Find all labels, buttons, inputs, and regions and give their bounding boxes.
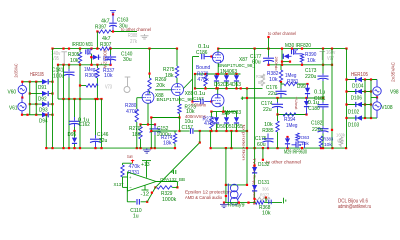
capacitor C157 xyxy=(190,128,192,134)
svg-text:to protection: to protection xyxy=(242,125,247,161)
svg-text:D95: D95 xyxy=(68,132,77,138)
svg-text:C180: C180 xyxy=(308,106,319,112)
svg-text:D102: D102 xyxy=(348,110,359,116)
wire y114.5 xyxy=(278,114,307,116)
wire Sum to R331 xyxy=(123,162,133,164)
zener diode D82 xyxy=(92,56,93,58)
svg-text:HER105: HER105 xyxy=(351,72,368,78)
wire transformer riser B xyxy=(35,82,37,115)
svg-text:A: A xyxy=(101,62,103,67)
node dots y104.1 xyxy=(29,103,31,105)
svg-text:D104: D104 xyxy=(352,84,363,90)
capacitor C163 xyxy=(112,15,114,23)
opamp V- bar xyxy=(142,189,149,191)
svg-text:+Uout: +Uout xyxy=(294,97,299,111)
wire M29 cluster riser xyxy=(230,131,232,148)
wire M31 source to rail xyxy=(91,54,93,65)
svg-text:10k: 10k xyxy=(324,142,332,148)
node dot X87 grid xyxy=(210,55,212,57)
svg-text:22u: 22u xyxy=(263,107,272,113)
voltage probe V73 xyxy=(125,76,131,78)
wire C163 to other channel xyxy=(111,31,137,33)
svg-text:to other channel: to other channel xyxy=(266,160,301,166)
node dots top bus right xyxy=(254,48,256,50)
resistor R305 xyxy=(79,49,81,52)
ac source V108 xyxy=(376,98,378,102)
resistor R306 xyxy=(86,84,98,87)
svg-text:R385: R385 xyxy=(262,128,273,134)
capacitor C186 xyxy=(201,54,203,60)
bypass cap mark at V+ xyxy=(173,170,175,174)
diode D103 xyxy=(356,115,362,120)
capacitor C110 xyxy=(126,187,128,202)
ground relay xyxy=(223,203,225,205)
svg-text:8k: 8k xyxy=(258,80,263,86)
svg-text:10k: 10k xyxy=(269,77,278,83)
net stub to other channel bottom xyxy=(262,148,264,160)
svg-text:22u: 22u xyxy=(99,138,108,144)
svg-text:C146: C146 xyxy=(97,132,108,138)
svg-text:220u: 220u xyxy=(305,74,316,80)
node dots relay riser xyxy=(225,184,227,186)
diode D55 xyxy=(236,112,238,118)
svg-text:D103: D103 xyxy=(348,123,359,129)
triode X86 xyxy=(211,94,224,107)
node dot center tap xyxy=(21,97,23,99)
zener diode D131 xyxy=(252,185,257,190)
wire right riser x365 xyxy=(364,80,366,119)
wire D94 out xyxy=(49,114,53,116)
resistor R331 xyxy=(122,163,124,165)
diode D52 xyxy=(216,74,218,75)
voltage probe V97 xyxy=(320,51,326,53)
wire cathode node y124.5 xyxy=(141,124,156,126)
diode D94 xyxy=(42,112,48,117)
svg-text:10k: 10k xyxy=(262,211,271,217)
node dots y98 xyxy=(246,97,248,99)
node dot C163 top xyxy=(112,13,114,15)
svg-text:D99: D99 xyxy=(297,84,306,90)
node dot x332 probe tap xyxy=(331,129,333,131)
wire X86 plate xyxy=(217,88,219,94)
node dot small cap node xyxy=(265,197,267,199)
svg-text:BN1P1TU0C_98_: BN1P1TU0C_98_ xyxy=(157,97,196,103)
node dots y93.5 xyxy=(29,92,31,94)
svg-text:D131: D131 xyxy=(258,180,269,186)
wire feedback diagonal xyxy=(155,143,199,188)
wire X89 plate diagonal xyxy=(183,79,192,89)
wire X89 cathode xyxy=(179,96,181,104)
resistor R383 xyxy=(319,136,322,147)
disabled ground symbol xyxy=(144,34,146,36)
wire y99 horizontal xyxy=(58,98,102,100)
capacitor C180 xyxy=(322,102,324,104)
node dots on left top bus xyxy=(51,48,53,50)
diode D106 xyxy=(356,89,362,94)
svg-text:R383: R383 xyxy=(323,137,334,143)
svg-text:R386: R386 xyxy=(256,74,265,80)
svg-text:1Meg: 1Meg xyxy=(84,67,95,73)
wire y104.1 xyxy=(30,103,42,105)
wire riser x247 long xyxy=(246,88,248,184)
mosfet M29 xyxy=(297,141,299,149)
node dots y114.75 xyxy=(21,114,23,116)
capacitor C173 xyxy=(322,74,324,76)
wire X86 cathode xyxy=(222,107,224,112)
zener diode D96 xyxy=(284,54,289,59)
wire secondary top y81.75 xyxy=(22,81,42,83)
op-amp X137 OPA132 xyxy=(128,172,157,191)
ac source V60 xyxy=(21,82,23,86)
node dot mid diagonal xyxy=(151,192,153,194)
wire y91.5 xyxy=(347,91,372,93)
wire rectifier output riser xyxy=(52,49,54,149)
resistor R397 xyxy=(99,30,112,33)
resistor R270 xyxy=(140,125,142,127)
svg-text:1u: 1u xyxy=(133,214,139,220)
wire X87 plate to bus xyxy=(217,49,219,52)
node dot y131 xyxy=(178,130,180,132)
wire R331 to +input xyxy=(123,176,128,178)
wire X88 cathode xyxy=(147,103,149,124)
wire right rail y64.8 xyxy=(269,64,333,66)
resistor R274 xyxy=(174,131,176,134)
wire left rail 140v xyxy=(58,64,111,66)
diode D54 xyxy=(226,74,228,75)
svg-text:M30 IRF820: M30 IRF820 xyxy=(285,43,311,49)
svg-text:100u: 100u xyxy=(53,74,64,80)
ground bottom left bus xyxy=(146,148,148,150)
wire y118 xyxy=(347,117,378,119)
wire transformer riser A xyxy=(29,82,31,115)
resistor R278 xyxy=(204,75,207,86)
svg-text:R306: R306 xyxy=(85,73,96,79)
svg-text:D91: D91 xyxy=(38,85,47,91)
wire x122.5 down xyxy=(122,177,124,187)
resistor R368 xyxy=(256,201,265,204)
supply rail x254.6 xyxy=(254,49,256,203)
svg-text:to other channel: to other channel xyxy=(268,31,296,37)
wire y98 xyxy=(242,97,323,99)
svg-text:-12: -12 xyxy=(141,192,150,198)
svg-text:2x35VAC: 2x35VAC xyxy=(391,61,396,82)
ac source V61 xyxy=(21,98,23,103)
wire output down xyxy=(176,182,178,188)
wire D92 out xyxy=(49,93,53,95)
resistor R280 xyxy=(136,98,138,109)
wire mid tap right xyxy=(371,97,377,99)
svg-text:V73: V73 xyxy=(105,85,112,91)
wire bottom left bus xyxy=(46,147,175,149)
capacitor C167 xyxy=(193,101,200,103)
relay Relay9 coil xyxy=(230,184,238,192)
svg-text:D132: D132 xyxy=(258,162,269,168)
wire X88 plate to X89 grid xyxy=(155,89,171,91)
svg-text:30u: 30u xyxy=(123,57,132,63)
right rectifier rail x346.5 xyxy=(346,49,348,149)
svg-text:R307: R307 xyxy=(100,42,111,48)
svg-text:60u: 60u xyxy=(257,142,266,148)
svg-text:D50D51D55: D50D51D55 xyxy=(217,124,243,130)
svg-text:Epsilon 12 protection: Epsilon 12 protection xyxy=(185,189,231,195)
wire x46.3 riser xyxy=(45,115,47,148)
node dot output node xyxy=(176,186,178,188)
small capacitor at output node xyxy=(265,198,267,202)
resistor R275 xyxy=(176,49,178,66)
node dots y124.5 xyxy=(139,123,141,125)
node dot y131 left end xyxy=(150,130,152,132)
wire y93.5 xyxy=(30,93,42,95)
svg-text:306: 306 xyxy=(262,186,269,192)
wire y61.6 stub xyxy=(282,61,290,63)
diode D99 xyxy=(307,84,309,88)
triode X87 xyxy=(212,52,223,63)
node dot R269 top area xyxy=(148,73,150,75)
diode D92 xyxy=(42,91,48,96)
capacitor C141 xyxy=(68,65,70,69)
resistor R269 xyxy=(149,49,151,78)
wire y131 continues xyxy=(194,130,247,132)
wire x80 to bottom bus xyxy=(79,99,81,148)
svg-text:22u: 22u xyxy=(268,91,277,97)
wire zener feed x282 xyxy=(281,49,283,65)
svg-text:OPA132_BB: OPA132_BB xyxy=(160,177,185,183)
svg-text:18k: 18k xyxy=(165,73,174,79)
antenna terminal of C163 xyxy=(110,10,116,12)
relay supply riser xyxy=(225,148,227,203)
svg-text:10k: 10k xyxy=(104,73,113,79)
node dots center bottom bus xyxy=(210,147,212,149)
wire y114.75 xyxy=(22,114,42,116)
filter rail x332 xyxy=(331,49,333,149)
wire y131 left part xyxy=(151,130,177,132)
svg-text:0.1u: 0.1u xyxy=(314,90,325,96)
capacitor C162 xyxy=(74,99,76,117)
node dot X87 plate xyxy=(217,48,219,50)
svg-text:Sum: Sum xyxy=(127,154,133,160)
svg-text:220u: 220u xyxy=(312,127,323,133)
node dots y91.5 xyxy=(345,90,347,92)
wire plate riser to C186 xyxy=(192,57,194,80)
node dots y114.5 xyxy=(276,113,278,115)
diode D102 xyxy=(356,102,362,107)
capacitor C174 xyxy=(277,98,279,102)
resistor R385 xyxy=(277,115,279,122)
diode D95 xyxy=(74,131,76,138)
wire y104.5 xyxy=(347,104,372,106)
wire cathode rail y74 xyxy=(195,73,241,75)
wire to minus input xyxy=(123,186,128,188)
svg-text:470k: 470k xyxy=(126,109,138,115)
svg-text:X87: X87 xyxy=(239,57,248,63)
wire relay top y184.9 xyxy=(226,184,247,186)
node dot feedback corner xyxy=(199,141,201,143)
wire relay bottom y202.6 xyxy=(224,202,256,204)
node dot C167 left xyxy=(191,100,193,102)
disabled resistor R386 xyxy=(261,74,264,86)
node dot riser top xyxy=(267,36,269,38)
diode D104 xyxy=(356,77,362,82)
wire R337 to y99 xyxy=(96,86,98,100)
svg-text:1Meg: 1Meg xyxy=(286,123,297,129)
svg-text:+: + xyxy=(129,175,132,180)
wire riser x231.4 xyxy=(230,131,232,148)
filter rail x323 xyxy=(322,49,324,74)
wire x63.5 drop xyxy=(63,65,65,99)
node dots on left rail xyxy=(57,64,59,66)
node dots y88.4 xyxy=(194,87,196,89)
wire X88 grid stub xyxy=(137,97,142,99)
node dot V98 bottom xyxy=(376,96,378,98)
zener diode D132 xyxy=(252,167,257,172)
node dots y79.5 xyxy=(345,78,347,80)
wire x69 to bottom bus xyxy=(68,99,70,148)
svg-text:HER105: HER105 xyxy=(30,72,44,78)
svg-text:C162: C162 xyxy=(79,122,90,128)
svg-text:V98: V98 xyxy=(390,90,399,96)
node dots y118 xyxy=(345,117,347,119)
node dots y104.5 xyxy=(345,103,347,105)
svg-text:470k: 470k xyxy=(204,121,216,127)
svg-text:D106: D106 xyxy=(351,96,362,102)
svg-text:0.1u: 0.1u xyxy=(194,91,205,97)
node dot X86 grid xyxy=(210,100,212,102)
resistor R381 xyxy=(281,83,284,85)
diode D91 xyxy=(42,79,48,84)
node dot x282 bus xyxy=(281,48,283,50)
resistor R363 xyxy=(296,133,299,141)
svg-text:1N4063: 1N4063 xyxy=(220,69,237,75)
diode D50 xyxy=(216,112,218,118)
svg-text:M29 IRF9630: M29 IRF9630 xyxy=(284,150,307,156)
wire D93 out xyxy=(49,103,53,105)
diode D53 xyxy=(236,74,238,75)
wire y117.5 xyxy=(151,117,179,119)
node dot R306 left xyxy=(79,84,81,86)
wire cathode to y131 xyxy=(179,118,181,132)
wire y79.5 xyxy=(347,79,378,81)
capacitor C146 xyxy=(95,99,97,135)
svg-text:C186: C186 xyxy=(196,50,207,56)
node dots y74 xyxy=(194,73,196,75)
svg-text:20k: 20k xyxy=(156,83,165,89)
node dot C162 bottom xyxy=(73,130,75,132)
wire opamp output xyxy=(156,181,177,183)
node dots right rail xyxy=(267,64,269,66)
svg-text:V97: V97 xyxy=(327,56,334,62)
wire R306 left xyxy=(80,85,86,87)
disabled resistor 160k with probe V99 xyxy=(339,137,342,146)
capacitor C152 xyxy=(154,125,156,129)
node dots y81.75 xyxy=(21,81,23,83)
svg-text:to other channel: to other channel xyxy=(121,27,151,33)
diode D93 xyxy=(42,102,48,107)
node dot R329 left xyxy=(154,186,156,188)
svg-text:V108: V108 xyxy=(381,105,392,111)
disabled resistor R377 xyxy=(256,197,270,200)
svg-text:2x35VAC: 2x35VAC xyxy=(14,63,19,77)
wire x58 drop xyxy=(57,65,59,99)
svg-text:180: 180 xyxy=(132,132,141,138)
svg-text:160k: 160k xyxy=(336,132,346,138)
wire riser x151.3 xyxy=(150,118,152,149)
wire top bus mid segment xyxy=(111,48,177,50)
wire x80 drop xyxy=(79,65,81,99)
zener diode D97 xyxy=(306,98,308,101)
wire top bus left segment xyxy=(53,48,101,50)
node dots y131 xyxy=(199,130,201,132)
svg-text:D52D54D53: D52D54D53 xyxy=(214,82,241,88)
net flag Sum xyxy=(132,160,134,164)
wire V+ stub xyxy=(146,161,148,178)
capacitor C175 xyxy=(267,134,269,139)
svg-text:R397: R397 xyxy=(95,25,106,31)
svg-text:60u: 60u xyxy=(252,59,261,65)
resistor R382 xyxy=(280,65,282,70)
node dot R382 bottom xyxy=(280,81,282,83)
svg-text:1000k: 1000k xyxy=(162,197,177,203)
svg-text:10k: 10k xyxy=(186,109,195,115)
wire x195 riser xyxy=(194,74,196,88)
wire R397 feed xyxy=(96,32,98,49)
node dot R274 bottom xyxy=(174,147,176,149)
svg-text:R329: R329 xyxy=(161,191,172,197)
wire X87 cathode xyxy=(217,63,219,74)
svg-text:C157: C157 xyxy=(182,125,193,131)
node dots supply rail xyxy=(254,164,256,166)
wire output y131 xyxy=(180,130,190,132)
node dot relay top right xyxy=(246,184,248,186)
node dot R397 left xyxy=(96,30,98,32)
capacitor C140 xyxy=(110,49,112,55)
wire x101.5 to bottom bus xyxy=(101,99,103,148)
svg-text:X137: X137 xyxy=(114,182,124,187)
node dot C110 right xyxy=(146,201,148,203)
wire center bottom bus xyxy=(211,147,347,149)
capacitor C182 xyxy=(322,126,324,128)
resistor R307 xyxy=(100,47,111,50)
wire top bus right segment xyxy=(218,48,347,50)
node dot D82 left xyxy=(90,56,92,58)
wire right riser x371 xyxy=(370,80,372,119)
resistor R337 xyxy=(96,65,98,68)
resistor R390 xyxy=(300,54,303,62)
svg-text:+13: +13 xyxy=(141,162,150,168)
svg-text:R363: R363 xyxy=(299,135,310,141)
node dot riser top xyxy=(150,116,152,118)
wire M30 gate xyxy=(289,55,292,57)
wire x63.5 to bottom bus xyxy=(63,99,65,148)
wire to other channel top riser xyxy=(268,37,270,49)
node dots y202.6 xyxy=(223,202,225,204)
svg-text:AMD & Canali audio: AMD & Canali audio xyxy=(185,195,222,201)
svg-text:18k: 18k xyxy=(163,140,172,146)
relay contact bar xyxy=(227,184,229,205)
node dots on y99 xyxy=(62,98,64,100)
svg-text:IRF820 M31: IRF820 M31 xyxy=(72,42,93,48)
wire riser x210.6 xyxy=(210,131,212,148)
svg-text:290vdc: 290vdc xyxy=(274,57,279,71)
terminal mark right of R368 xyxy=(283,198,285,204)
svg-text:10k: 10k xyxy=(301,141,309,147)
mosfet M30 xyxy=(293,49,295,55)
resistor R329 xyxy=(157,186,172,189)
capacitor C176 xyxy=(280,82,282,89)
node dot R273 bottom xyxy=(178,116,180,118)
wire rail y88.4 xyxy=(195,87,263,89)
wire y202.6 right xyxy=(264,202,282,204)
mosfet M31 xyxy=(87,49,89,55)
